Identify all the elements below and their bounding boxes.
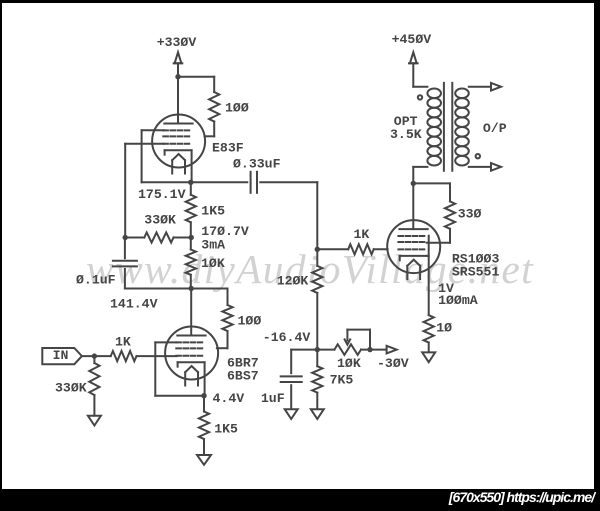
svg-text:1K: 1K	[354, 227, 370, 242]
svg-text:IN: IN	[53, 348, 69, 363]
svg-text:33Ø: 33Ø	[458, 207, 482, 222]
svg-text:6BS7: 6BS7	[227, 368, 259, 383]
svg-text:7K5: 7K5	[330, 372, 354, 387]
svg-text:+45ØV: +45ØV	[392, 32, 432, 47]
svg-text:-16.4V: -16.4V	[263, 330, 311, 345]
svg-text:1K5: 1K5	[214, 421, 238, 436]
svg-text:141.4V: 141.4V	[110, 297, 158, 312]
svg-text:1ØØ: 1ØØ	[238, 314, 262, 329]
svg-text:1Ø: 1Ø	[436, 320, 452, 335]
svg-text:1ØØ: 1ØØ	[225, 101, 249, 116]
svg-text:12ØK: 12ØK	[277, 273, 309, 288]
svg-text:Ø.33uF: Ø.33uF	[233, 157, 281, 172]
svg-text:-3ØV: -3ØV	[377, 356, 409, 371]
svg-text:E83F: E83F	[212, 141, 244, 156]
svg-text:1K5: 1K5	[201, 203, 225, 218]
svg-text:3mA: 3mA	[201, 238, 225, 253]
svg-text:1ØK: 1ØK	[337, 356, 361, 371]
svg-text:1uF: 1uF	[261, 391, 285, 406]
svg-text:4.4V: 4.4V	[213, 391, 245, 406]
svg-text:3.5K: 3.5K	[390, 127, 422, 142]
svg-text:O/P: O/P	[483, 121, 507, 136]
svg-text:33ØK: 33ØK	[55, 380, 87, 395]
svg-text:1K: 1K	[115, 334, 131, 349]
svg-text:1ØØmA: 1ØØmA	[438, 293, 478, 308]
svg-text:175.1V: 175.1V	[138, 187, 186, 202]
svg-text:1ØK: 1ØK	[201, 256, 225, 271]
svg-text:SRS551: SRS551	[452, 265, 500, 280]
svg-text:33ØK: 33ØK	[144, 212, 176, 227]
svg-text:+33ØV: +33ØV	[157, 35, 197, 50]
svg-text:Ø.1uF: Ø.1uF	[76, 272, 116, 287]
